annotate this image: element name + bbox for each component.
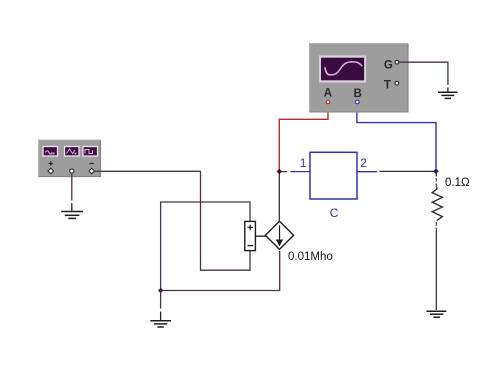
- blue wire scope channel B: [357, 104, 436, 169]
- XSC1 screen sine trace: [325, 62, 362, 75]
- XSC1 terminal A: [326, 100, 330, 104]
- XSC1 screen bezel: [319, 55, 366, 82]
- VCCS box output lead to diamond: [255, 235, 265, 237]
- C pin number 1: [300, 156, 307, 170]
- XSC1 label G: [384, 59, 393, 71]
- XFG1 square button: [83, 147, 98, 157]
- ground GND2 (bottom left): [150, 321, 171, 327]
- XSC1 terminal T: [395, 81, 399, 85]
- wire node A-junction down to diamond top: [278, 172, 280, 222]
- wire VCCS plus lead loop to left vertical: [161, 202, 250, 291]
- wire scope ground G to ground symbol: [399, 62, 448, 91]
- wire XFG1 common to ground: [71, 174, 73, 211]
- C subcircuit pin 2 lead: [357, 171, 377, 173]
- svg-text:C: C: [330, 206, 339, 220]
- XSC1 label A: [324, 87, 332, 99]
- svg-text:G: G: [384, 59, 393, 71]
- XFG1 plus label: [49, 161, 53, 165]
- svg-text:T: T: [384, 79, 391, 91]
- XFG1 common terminal: [70, 169, 74, 173]
- XFG1 minus terminal: [89, 168, 95, 174]
- svg-text:1: 1: [300, 156, 307, 170]
- svg-text:B: B: [354, 88, 362, 100]
- XFG1 triangle button: [65, 147, 80, 157]
- VCCS diamond U1: [265, 221, 293, 249]
- C subcircuit name label: [330, 206, 339, 220]
- node junction (diamond top / C pin1 / channel A): [277, 169, 282, 174]
- XSC1 label T: [384, 79, 391, 91]
- resistor R1 bottom lead: [435, 222, 437, 310]
- ground GND3 (under resistor): [427, 311, 447, 317]
- svg-text:2: 2: [360, 156, 367, 170]
- XSC1 screen: [321, 58, 364, 81]
- wire node to C pin 1: [282, 171, 288, 173]
- node at bottom left junction: [158, 288, 163, 293]
- svg-text:0.01Mho: 0.01Mho: [288, 251, 333, 263]
- VCCS control box (plus/minus rectangle): [245, 221, 256, 250]
- C pin number 2: [360, 156, 367, 170]
- node junction (channel B / C pin2 / resistor): [433, 169, 438, 174]
- ground GND4 (right of scope): [438, 92, 458, 98]
- resistor R1 value label 0.1 ohm: [445, 177, 470, 189]
- XFG1 sine button: [43, 147, 58, 157]
- VCCS value label 0.01Mho: [288, 251, 333, 263]
- svg-text:0.1Ω: 0.1Ω: [445, 177, 470, 189]
- XSC1 terminal G: [395, 60, 399, 64]
- XFG1 plus terminal: [48, 168, 54, 174]
- function generator XFG1 body: [39, 140, 101, 177]
- red wire scope channel A: [279, 104, 328, 169]
- oscilloscope XSC1 body: [310, 44, 409, 113]
- C subcircuit box: [310, 152, 357, 199]
- XSC1 label B: [354, 88, 362, 100]
- XFG1 minus label: [90, 163, 94, 165]
- svg-text:A: A: [324, 87, 332, 99]
- resistor R1 top lead: [435, 173, 437, 187]
- wire bottom node to VCCS diamond bottom: [161, 251, 280, 291]
- ground GND1 (under function generator): [61, 212, 83, 219]
- wire bottom node to ground: [160, 291, 162, 321]
- wire C pin 2 to resistor node: [380, 170, 435, 172]
- resistor R1 zigzag: [432, 187, 442, 221]
- C subcircuit pin 1 lead: [290, 171, 310, 173]
- wire XFG1 minus output to node, via x=200: [95, 171, 250, 270]
- XSC1 terminal B: [356, 100, 360, 104]
